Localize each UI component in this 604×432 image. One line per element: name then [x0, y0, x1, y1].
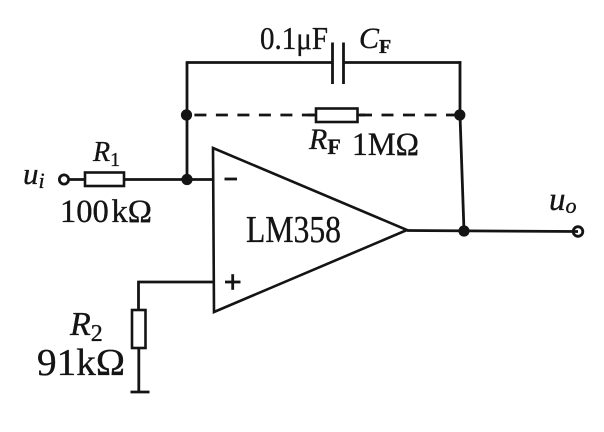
svg-text:100 kΩ: 100 kΩ — [60, 194, 152, 230]
node D (output junction) — [458, 225, 469, 236]
inverting input marker - — [225, 178, 238, 181]
output terminal u_o — [573, 227, 583, 237]
wire: node A up to feedback net — [186, 63, 189, 180]
wire: input terminal to R1 — [69, 178, 85, 181]
wire: right feedback vertical — [460, 61, 464, 231]
wire: non-inverting input vertical to R2 — [137, 281, 140, 310]
wire: R2 to ground — [137, 348, 140, 391]
non-inverting input marker + — [225, 274, 241, 290]
wire: R1 to node A — [124, 178, 187, 181]
resistor RF — [316, 109, 358, 123]
resistor R1 — [85, 173, 124, 187]
wire: RF left stub — [308, 114, 317, 117]
wire: RF right stub — [358, 114, 366, 117]
wire: top feedback left segment — [186, 61, 332, 64]
wire: node A to op-amp inverting input — [187, 178, 213, 181]
input terminal u_i — [59, 175, 68, 184]
svg-text:91kΩ: 91kΩ — [37, 342, 125, 384]
capacitor CF — [333, 43, 344, 85]
wire: top feedback right segment — [345, 61, 462, 64]
resistor R2 — [132, 310, 146, 348]
node C (right feedback junction) — [454, 109, 465, 120]
svg-text:1MΩ: 1MΩ — [352, 127, 419, 163]
node B (left feedback junction) — [181, 109, 192, 120]
svg-text:LM358: LM358 — [246, 209, 341, 251]
svg-text:0.1μF: 0.1μF — [260, 20, 328, 56]
ground — [131, 391, 150, 394]
wire: op-amp output — [407, 231, 578, 232]
dashed wire: RF branch left — [194, 114, 316, 117]
node A (inverting input junction) — [181, 174, 192, 185]
wire: non-inverting input horizontal — [139, 281, 214, 284]
dashed wire: RF branch right — [360, 114, 457, 117]
op-amp U1 — [213, 148, 407, 312]
